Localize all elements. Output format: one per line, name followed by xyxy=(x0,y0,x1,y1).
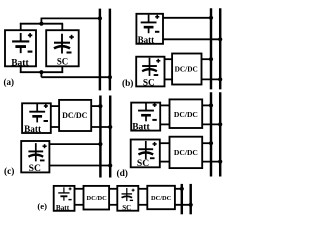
svg-text:Batt: Batt xyxy=(56,204,70,212)
minus DC bus bar (c) xyxy=(109,96,111,178)
battery symbol in Batt (d) xyxy=(138,103,157,122)
wire Batt plus to bus (b) xyxy=(163,17,211,19)
wire dropper at junction (a) xyxy=(40,72,42,77)
wire top to plus bus (a) xyxy=(41,17,100,19)
wire SC plus to conv2 (e) xyxy=(138,188,147,190)
junction dot bottom (a) xyxy=(39,70,43,74)
wire converter plus to bus (c) xyxy=(91,105,100,107)
wire SC minus to converter (b) xyxy=(165,78,173,80)
wire SC plus to converter (b) xyxy=(165,58,173,60)
supercapacitor unit box SC (b) xyxy=(136,57,164,87)
wire converter plus to bus (b) xyxy=(202,58,212,60)
minus DC bus bar (d) xyxy=(219,92,221,176)
wire SC minus to conv2 (e) xyxy=(138,204,147,206)
svg-text:DC/DC: DC/DC xyxy=(151,195,172,202)
wire SC minus to bus (c) xyxy=(49,165,110,167)
battery symbol in Batt (a) xyxy=(12,33,32,53)
battery symbol in Batt (b) xyxy=(141,15,160,34)
battery symbol in Batt (c) xyxy=(29,104,48,123)
svg-text:DC/DC: DC/DC xyxy=(174,110,198,119)
plus DC bus bar (e) xyxy=(181,184,183,214)
wire converter1 minus to bus (d) xyxy=(202,123,220,125)
supercapacitor symbol in SC (a) xyxy=(54,34,74,54)
wire SC top stub (a) xyxy=(61,24,63,31)
bus junction dot SC plus (c) xyxy=(98,142,102,146)
bus junction dot conv1 plus (d) xyxy=(209,103,213,107)
bus junction dot minus (a) xyxy=(108,75,112,79)
wire bottom to minus bus (a) xyxy=(41,76,110,78)
bus junction dot Batt minus (b) xyxy=(218,37,222,41)
supercapacitor unit box SC (e) xyxy=(117,186,138,211)
DC/DC converter box (b) xyxy=(172,54,201,85)
wire conv1 minus to SC (e) xyxy=(109,204,117,206)
bus junction dot plus (a) xyxy=(98,16,102,20)
minus DC bus bar (a) xyxy=(109,9,111,91)
bus junction dot conv plus (c) xyxy=(98,104,102,108)
DC/DC converter box 2 (d) xyxy=(170,137,203,168)
supercapacitor unit box SC (a) xyxy=(46,30,78,66)
wire Batt plus to converter (c) xyxy=(51,105,59,107)
wire Batt minus to converter (c) xyxy=(51,126,59,128)
svg-text:(a): (a) xyxy=(4,77,15,87)
svg-text:(c): (c) xyxy=(4,166,14,177)
svg-text:(d): (d) xyxy=(116,168,127,179)
svg-text:SC: SC xyxy=(57,57,68,67)
svg-text:Batt: Batt xyxy=(138,35,155,45)
svg-text:DC/DC: DC/DC xyxy=(175,65,198,74)
bus junction dot conv2 minus (d) xyxy=(218,160,222,164)
wire Batt bottom stub (a) xyxy=(20,66,22,73)
wire top level-1 (a) xyxy=(20,23,63,25)
supercapacitor symbol in SC (d) xyxy=(138,141,156,159)
svg-text:(b): (b) xyxy=(122,78,133,89)
wire conv1 plus to SC (e) xyxy=(109,188,117,190)
DC/DC converter box 1 (e) xyxy=(84,186,110,210)
svg-text:DC/DC: DC/DC xyxy=(174,148,198,157)
wire Batt minus to conv1 (e) xyxy=(75,204,84,206)
wire converter1 plus to bus (d) xyxy=(202,104,211,106)
svg-text:SC: SC xyxy=(122,204,131,212)
wire SC plus to converter2 (d) xyxy=(160,142,170,144)
wire converter2 plus to bus (d) xyxy=(202,142,211,144)
wire Batt plus to converter (d) xyxy=(160,104,169,106)
bus junction dot conv1 minus (d) xyxy=(218,122,222,126)
svg-text:SC: SC xyxy=(29,163,41,174)
battery unit box Batt (b) xyxy=(136,14,163,44)
plus DC bus bar (d) xyxy=(210,92,212,176)
minus DC bus bar (e) xyxy=(189,184,191,214)
plus DC bus bar (a) xyxy=(99,9,101,91)
wire conv2 minus to bus (e) xyxy=(175,204,191,206)
wire SC plus to bus (c) xyxy=(49,143,100,145)
junction dot top (a) xyxy=(39,22,43,26)
supercapacitor symbol in SC (b) xyxy=(142,58,160,76)
DC/DC converter box 1 (d) xyxy=(170,99,203,128)
supercapacitor symbol in SC (c) xyxy=(28,143,46,161)
bus junction dot SC minus (c) xyxy=(108,163,112,167)
wire Batt top stub (a) xyxy=(20,23,22,30)
supercapacitor unit box SC (d) xyxy=(131,140,160,168)
svg-text:SC: SC xyxy=(137,158,149,169)
DC/DC converter box 2 (e) xyxy=(147,186,175,209)
wire Batt minus to bus (b) xyxy=(163,38,220,40)
bus junction dot Batt plus (b) xyxy=(209,16,213,20)
plus DC bus bar (c) xyxy=(99,96,101,178)
bus junction dot conv2 plus (d) xyxy=(209,141,213,145)
battery unit box Batt (c) xyxy=(22,103,51,133)
bus junction dot conv plus (b) xyxy=(209,57,213,61)
supercapacitor unit box SC (c) xyxy=(21,141,49,172)
battery unit box Batt (e) xyxy=(54,186,75,211)
minus DC bus bar (b) xyxy=(219,8,221,89)
bus junction dot conv minus (c) xyxy=(108,125,112,129)
wire SC bottom stub (a) xyxy=(61,66,63,73)
wire bottom level (a) xyxy=(20,71,63,73)
wire SC minus to converter2 (d) xyxy=(160,161,170,163)
wire riser at junction (a) xyxy=(40,18,42,24)
bus junction dot conv minus (b) xyxy=(218,77,222,81)
wire converter2 minus to bus (d) xyxy=(202,161,220,163)
bus junction dot plus (e) xyxy=(180,187,184,191)
svg-text:DC/DC: DC/DC xyxy=(86,195,107,202)
wire conv2 plus to bus (e) xyxy=(175,188,182,190)
DC/DC converter box (c) xyxy=(59,100,91,131)
wire Batt minus to converter (d) xyxy=(160,123,169,125)
plus DC bus bar (b) xyxy=(210,8,212,89)
battery unit box Batt (d) xyxy=(131,103,160,131)
wire converter minus to bus (b) xyxy=(202,78,221,80)
svg-text:Batt: Batt xyxy=(24,124,42,134)
wire Batt plus to conv1 (e) xyxy=(75,188,84,190)
svg-text:DC/DC: DC/DC xyxy=(62,111,88,120)
supercapacitor symbol in SC (e) xyxy=(122,188,135,201)
battery symbol in Batt (e) xyxy=(58,187,71,200)
bus junction dot minus (e) xyxy=(189,203,193,207)
svg-text:Batt: Batt xyxy=(132,123,150,133)
battery unit box Batt (a) xyxy=(5,30,36,66)
svg-text:(e): (e) xyxy=(37,201,47,211)
wire converter minus to bus (c) xyxy=(91,126,110,128)
svg-text:SC: SC xyxy=(143,78,155,88)
